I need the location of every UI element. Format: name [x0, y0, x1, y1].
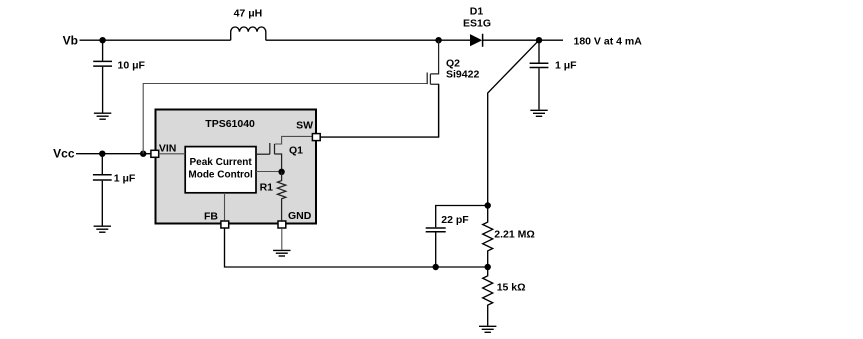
- svg-text:Mode Control: Mode Control: [188, 170, 253, 181]
- svg-text:R1: R1: [260, 181, 274, 193]
- wire control box to Q1 source node: [256, 171, 282, 173]
- capacitor 22pF branch: [435, 232, 437, 267]
- svg-text:GND: GND: [288, 210, 312, 222]
- svg-text:1 μF: 1 μF: [555, 59, 577, 71]
- wire SW to Q2 source: [321, 84, 439, 137]
- inductor 47uH: [231, 27, 266, 40]
- resistor 15 kOhm: [483, 267, 493, 326]
- transistor Q2 Si9422: [427, 40, 438, 137]
- resistor R1: [277, 172, 285, 221]
- svg-text:180 V at 4 mA: 180 V at 4 mA: [574, 35, 643, 47]
- IC U1 TPS61040 body: [156, 110, 317, 224]
- svg-text:Vcc: Vcc: [53, 147, 75, 161]
- svg-text:TPS61040: TPS61040: [205, 118, 255, 130]
- svg-text:VIN: VIN: [159, 142, 177, 154]
- wire D1 to output: [483, 39, 563, 41]
- capacitor 10uF: [102, 40, 104, 61]
- wire FB pin down and right to divider: [225, 228, 488, 267]
- node junction divider top: [485, 202, 491, 208]
- wire SW internal to Q1 drain: [275, 136, 313, 144]
- wire Vcc to VIN: [76, 153, 151, 155]
- svg-text:D1: D1: [470, 5, 484, 17]
- pin GND: [278, 221, 286, 228]
- node junction Vcc/riser: [140, 151, 146, 157]
- svg-text:22 pF: 22 pF: [441, 214, 469, 226]
- capacitor 1uF (input): [101, 154, 103, 174]
- wire riser Vcc junction to Q2 gate: [143, 84, 427, 154]
- svg-text:FB: FB: [204, 211, 218, 223]
- diode D1: [470, 34, 482, 46]
- svg-text:2.21 MΩ: 2.21 MΩ: [494, 228, 535, 240]
- transistor Q1: [256, 143, 282, 172]
- wire Vb rail left: [80, 39, 231, 41]
- resistor 2.21 MOhm: [483, 206, 493, 267]
- pin VIN: [151, 150, 159, 157]
- svg-text:Si9422: Si9422: [446, 69, 479, 81]
- node junction FB/divider: [485, 264, 491, 270]
- node junction Vcc/C-1uF: [99, 151, 105, 157]
- ground below GND pin: [273, 250, 290, 256]
- pin SW: [312, 134, 320, 141]
- wire inductor to Q2/D1 node: [266, 39, 470, 41]
- pin FB: [221, 221, 229, 228]
- svg-text:SW: SW: [296, 120, 313, 132]
- wire GND pin to ground: [281, 228, 283, 250]
- node junction Vb/C-10uF: [99, 37, 105, 43]
- ground below input 1uF: [94, 226, 111, 232]
- control block Peak Current Mode Control: [185, 147, 256, 193]
- node junction Q1 source / R1: [278, 169, 284, 175]
- node junction output: [536, 37, 542, 43]
- wire control box bottom to FB pin: [224, 193, 226, 221]
- ground below 15 kOhm: [479, 326, 496, 332]
- svg-text:47 μH: 47 μH: [234, 8, 263, 20]
- wire diagonal output to divider: [488, 40, 539, 205]
- ground below output 1uF: [530, 110, 547, 116]
- svg-text:Vb: Vb: [63, 34, 78, 48]
- node junction L/Q2/D1: [435, 37, 441, 43]
- node junction FB/22pF: [433, 264, 439, 270]
- wire VIN pin to control box: [159, 153, 186, 155]
- svg-text:15 kΩ: 15 kΩ: [497, 281, 526, 293]
- svg-text:Q1: Q1: [289, 145, 303, 157]
- capacitor 1uF (output): [538, 40, 540, 62]
- svg-text:Peak Current: Peak Current: [189, 157, 252, 168]
- svg-text:1 μF: 1 μF: [114, 172, 136, 184]
- ground below 10uF: [94, 113, 111, 119]
- svg-text:10 μF: 10 μF: [118, 60, 146, 72]
- svg-text:ES1G: ES1G: [463, 18, 491, 30]
